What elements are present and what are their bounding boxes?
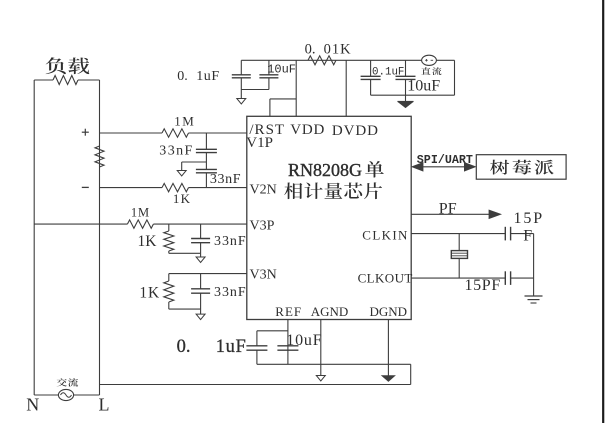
svg-text:REF: REF [275, 304, 302, 319]
svg-text:0.: 0. [177, 69, 188, 84]
svg-text:0.: 0. [305, 42, 316, 58]
svg-text:1M: 1M [174, 113, 195, 128]
svg-text:1K: 1K [138, 233, 158, 250]
svg-text:CLKOUT: CLKOUT [358, 270, 413, 285]
svg-text:DVDD: DVDD [332, 123, 379, 139]
svg-text:F: F [523, 227, 532, 244]
svg-text:10uF: 10uF [286, 332, 322, 349]
svg-text:1M: 1M [131, 206, 150, 220]
svg-text:V1P: V1P [246, 135, 273, 151]
svg-text:15PF: 15PF [465, 277, 501, 294]
svg-text:1uF: 1uF [196, 69, 220, 84]
svg-text:V2N: V2N [250, 183, 277, 198]
svg-text:33nF: 33nF [214, 285, 247, 300]
svg-text:V3N: V3N [250, 268, 277, 283]
svg-text:33nF: 33nF [214, 234, 247, 249]
svg-text:10uF: 10uF [407, 77, 440, 94]
svg-text:0.1uF: 0.1uF [372, 67, 404, 79]
svg-text:1uF: 1uF [216, 337, 247, 357]
svg-text:DGND: DGND [370, 304, 408, 319]
svg-text:1K: 1K [173, 191, 191, 206]
svg-text:N: N [26, 395, 39, 415]
svg-text:33nF: 33nF [159, 144, 193, 159]
svg-text:V3P: V3P [250, 219, 275, 234]
svg-text:0.: 0. [177, 337, 191, 357]
svg-text:CLKIN: CLKIN [362, 227, 408, 242]
svg-text:1K: 1K [139, 285, 160, 302]
svg-text:33nF: 33nF [210, 172, 241, 187]
svg-text:L: L [99, 395, 110, 415]
svg-text:10uF: 10uF [267, 63, 296, 77]
svg-text:RN8208G: RN8208G [288, 160, 362, 180]
svg-text:01K: 01K [324, 42, 352, 58]
svg-text:VDD: VDD [290, 122, 325, 138]
svg-text:AGND: AGND [311, 304, 349, 319]
svg-text:15P: 15P [514, 210, 545, 227]
